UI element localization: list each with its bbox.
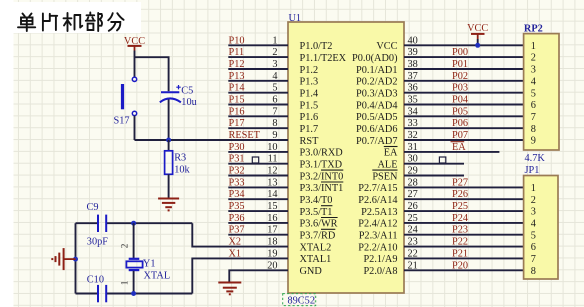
wire VCC drop (477, 39, 479, 45)
svg-text:5: 5 (531, 230, 536, 241)
pin name P0.0(AD0) (352, 53, 397, 64)
designator C10 (87, 275, 104, 286)
svg-text:13: 13 (267, 177, 277, 188)
pin number 8 (272, 118, 277, 129)
svg-text:10: 10 (267, 142, 277, 153)
svg-text:4: 4 (531, 219, 536, 230)
svg-text:6: 6 (531, 242, 536, 253)
pin number 23 (408, 237, 418, 248)
node P35 (229, 201, 245, 212)
pin name P3.4/T0 (300, 195, 333, 206)
wire pin 40 (404, 44, 524, 46)
svg-text:4.7K: 4.7K (525, 153, 546, 164)
wire pin 27 (404, 198, 524, 200)
svg-text:S17: S17 (114, 115, 130, 126)
svg-text:R3: R3 (174, 152, 186, 163)
wire pin 11 stub (228, 163, 288, 165)
node P01 (452, 59, 468, 70)
svg-text:P2.2/A10: P2.2/A10 (358, 242, 397, 253)
wire pin 14 stub (228, 198, 288, 200)
value 10u (181, 97, 196, 108)
pin number 32 (408, 130, 418, 141)
pin number 5 (RP2) (531, 88, 536, 99)
svg-text:6: 6 (531, 100, 536, 111)
value 4.7K (525, 153, 546, 164)
pin name P3.2/INT0 (300, 170, 344, 182)
pin name P1.2 (300, 65, 319, 76)
wire pin 37 (404, 80, 524, 82)
wire pin 21 (404, 269, 524, 271)
svg-text:EA: EA (452, 142, 466, 153)
pin number 1 (JP1) (531, 183, 536, 194)
svg-text:P02: P02 (452, 71, 468, 82)
pin name P2.3/A11 (359, 231, 398, 242)
svg-text:P0.0(AD0): P0.0(AD0) (352, 53, 397, 64)
svg-text:P37: P37 (229, 225, 245, 236)
svg-text:9: 9 (531, 136, 536, 147)
wire pin 2 stub (228, 56, 288, 58)
svg-text:P15: P15 (229, 95, 245, 106)
pin number 7 (RP2) (531, 112, 536, 123)
wire pin 35 (404, 104, 524, 106)
svg-text:26: 26 (408, 201, 418, 212)
svg-text:P24: P24 (452, 213, 468, 224)
svg-text:10u: 10u (181, 97, 196, 108)
svg-text:P07: P07 (452, 130, 468, 141)
pin number 18 (267, 237, 277, 248)
designator C9 (87, 202, 99, 213)
svg-text:31: 31 (408, 142, 418, 153)
svg-text:1: 1 (531, 183, 536, 194)
svg-text:2: 2 (531, 53, 536, 64)
marker square P31 (252, 157, 258, 163)
svg-text:P1.7: P1.7 (300, 124, 319, 135)
pin number 30 (408, 154, 418, 165)
part value 89C52 (283, 294, 316, 307)
svg-text:P3.6/WR: P3.6/WR (300, 219, 338, 230)
svg-text:25: 25 (408, 213, 418, 224)
node P22 (452, 237, 468, 248)
svg-text:2: 2 (272, 47, 277, 58)
op IC body U1 89C52 (288, 22, 404, 293)
node P33 (229, 177, 245, 188)
svg-text:3: 3 (531, 207, 536, 218)
node P27 (452, 177, 468, 188)
svg-text:3: 3 (272, 59, 277, 70)
svg-text:P0.7/AD7: P0.7/AD7 (356, 136, 397, 147)
value 10k (174, 164, 190, 175)
designator S17 (114, 115, 130, 126)
pin name PSEN (372, 170, 398, 182)
pin number 20 (267, 260, 277, 271)
svg-text:5: 5 (272, 83, 277, 94)
crystal Y1 (126, 259, 142, 270)
white page margin left (0, 0, 14, 307)
pin number 4 (RP2) (531, 76, 536, 87)
pin number 4 (JP1) (531, 219, 536, 230)
pin number 13 (267, 177, 277, 188)
svg-text:37: 37 (408, 71, 418, 82)
svg-text:36: 36 (408, 83, 418, 94)
svg-text:VCC: VCC (376, 41, 397, 52)
designator JP1 (525, 165, 540, 176)
svg-text:P0.4/AD4: P0.4/AD4 (356, 100, 397, 111)
svg-text:33: 33 (408, 118, 418, 129)
pin number 2 (Y1) (120, 243, 130, 248)
wire pin 23 (404, 246, 524, 248)
svg-text:P20: P20 (452, 260, 468, 271)
pin number 2 (RP2) (531, 53, 536, 64)
pin number 28 (408, 177, 418, 188)
svg-text:GND: GND (300, 266, 323, 277)
pin number 6 (RP2) (531, 100, 536, 111)
wire pin 17 stub (228, 234, 288, 236)
pin number 1 (272, 35, 277, 46)
wire pin 38 (404, 68, 524, 70)
wire pin 30 (404, 163, 464, 165)
node P26 (452, 189, 468, 200)
svg-text:P36: P36 (229, 213, 245, 224)
svg-text:P1.2: P1.2 (300, 65, 319, 76)
wire pin 16 stub (228, 222, 288, 224)
svg-text:P0.5/AD5: P0.5/AD5 (356, 112, 397, 123)
svg-text:P06: P06 (452, 118, 468, 129)
wire pin 12 stub (228, 175, 288, 177)
svg-text:39: 39 (408, 47, 418, 58)
svg-text:P3.1/TXD: P3.1/TXD (300, 160, 343, 171)
svg-text:P3.7/RD: P3.7/RD (300, 231, 336, 242)
pin name RST (300, 136, 320, 147)
svg-text:6: 6 (272, 95, 277, 106)
svg-text:P03: P03 (452, 83, 468, 94)
pin name P0.2/AD2 (356, 77, 397, 88)
svg-text:P05: P05 (452, 106, 468, 117)
resistor R3 (165, 151, 173, 175)
svg-text:P1.1/T2EX: P1.1/T2EX (300, 53, 347, 64)
wire R3 bottom (168, 174, 170, 198)
designator R3 (174, 152, 186, 163)
node P24 (452, 213, 468, 224)
pin name VCC (376, 41, 397, 52)
pin number 39 (408, 47, 418, 58)
svg-text:P2.6/A14: P2.6/A14 (358, 195, 397, 206)
svg-text:P32: P32 (229, 166, 245, 177)
svg-text:P12: P12 (229, 59, 245, 70)
pin number 24 (408, 225, 418, 236)
svg-text:VCC: VCC (467, 23, 488, 34)
wire pin 10 stub (228, 151, 288, 153)
svg-text:1: 1 (120, 280, 130, 285)
svg-text:P3.3/INT1: P3.3/INT1 (300, 183, 344, 194)
svg-text:P26: P26 (452, 189, 468, 200)
node P05 (452, 106, 468, 117)
node P37 (229, 225, 245, 236)
pin name P2.7/A15 (358, 183, 397, 194)
node P12 (229, 59, 245, 70)
pin number 7 (JP1) (531, 254, 536, 265)
node P31 (229, 154, 245, 165)
svg-text:P0.2/AD2: P0.2/AD2 (356, 77, 397, 88)
wire X1 (192, 258, 288, 293)
svg-text:XTAL2: XTAL2 (300, 242, 332, 253)
wire pin 15 stub (228, 210, 288, 212)
wire pin 31 (404, 151, 499, 153)
pin number 25 (408, 213, 418, 224)
node P00 (452, 47, 468, 58)
svg-text:24: 24 (408, 225, 418, 236)
pin number 16 (267, 213, 277, 224)
node P20 (452, 260, 468, 271)
svg-text:8: 8 (272, 118, 277, 129)
wire pin 36 (404, 92, 524, 94)
pin name P1.1/T2EX (300, 53, 347, 64)
pin name P0.3/AD3 (356, 89, 397, 100)
svg-text:P1.0/T2: P1.0/T2 (300, 41, 333, 52)
pin name P0.1/AD1 (356, 65, 397, 76)
pin number 10 (267, 142, 277, 153)
node X2 (229, 237, 242, 248)
svg-text:30pF: 30pF (87, 236, 108, 247)
svg-text:12: 12 (267, 166, 277, 177)
svg-text:P21: P21 (452, 248, 468, 259)
pin name P2.6/A14 (358, 195, 397, 206)
pin number 5 (JP1) (531, 230, 536, 241)
svg-text:P27: P27 (452, 177, 468, 188)
pin number 40 (408, 35, 418, 46)
svg-text:34: 34 (408, 106, 418, 117)
pin number 6 (JP1) (531, 242, 536, 253)
node P13 (229, 71, 245, 82)
svg-text:P10: P10 (229, 35, 245, 46)
pin number 2 (272, 47, 277, 58)
pin number 11 (268, 154, 278, 165)
svg-text:P04: P04 (452, 95, 468, 106)
node P11 (229, 47, 245, 58)
svg-text:P30: P30 (229, 142, 245, 153)
wire pin 1 stub (228, 44, 288, 46)
pin number 33 (408, 118, 418, 129)
pin number 6 (272, 95, 277, 106)
svg-text:RST: RST (300, 136, 320, 147)
pin name ALE (377, 160, 397, 171)
svg-text:5: 5 (531, 88, 536, 99)
svg-text:P01: P01 (452, 59, 468, 70)
node P36 (229, 213, 245, 224)
svg-text:35: 35 (408, 95, 418, 106)
wire pin 39 (404, 56, 524, 58)
svg-text:P11: P11 (229, 47, 245, 58)
pin name P3.6/WR (300, 218, 338, 230)
svg-text:Y1: Y1 (143, 258, 156, 269)
pin name P3.5/T1 (300, 206, 333, 218)
svg-text:8: 8 (531, 266, 536, 277)
svg-text:2: 2 (120, 243, 130, 248)
ground (left, rotated) (52, 248, 63, 270)
pin number 1 (RP2) (531, 41, 536, 52)
pin name P0.7/AD7 (356, 136, 397, 147)
svg-text:P14: P14 (229, 83, 245, 94)
wire crystal bottom rail (76, 293, 193, 295)
designator RP2 (524, 23, 543, 34)
pin number 4 (272, 71, 277, 82)
pin number 15 (267, 201, 277, 212)
resistor pack RP2 body (524, 34, 559, 150)
pin name P2.0/A8 (363, 266, 397, 277)
svg-text:8: 8 (531, 124, 536, 135)
svg-text:JP1: JP1 (525, 165, 540, 176)
svg-text:P17: P17 (229, 118, 245, 129)
wire crystal top rail (76, 222, 193, 224)
node P17 (229, 118, 245, 129)
pin name P3.1/TXD (300, 160, 343, 171)
wire S17 bottom (134, 116, 136, 140)
svg-text:23: 23 (408, 237, 418, 248)
pin name P1.3 (300, 77, 319, 88)
pin number 9 (272, 130, 277, 141)
marker square pin30 (439, 157, 445, 163)
pin name P3.3/INT1 (300, 182, 344, 194)
svg-text:C5: C5 (181, 86, 193, 97)
svg-text:P00: P00 (452, 47, 468, 58)
wire pin 25 (404, 222, 524, 224)
svg-text:P13: P13 (229, 71, 245, 82)
svg-text:89C52: 89C52 (288, 296, 315, 307)
junction Y1 top (131, 221, 136, 226)
connector JP1 body (524, 176, 558, 280)
svg-text:P2.0/A8: P2.0/A8 (363, 266, 397, 277)
pin name P0.5/AD5 (356, 112, 397, 123)
svg-text:P1.4: P1.4 (300, 89, 319, 100)
svg-text:P31: P31 (229, 154, 245, 165)
pin number 3 (272, 59, 277, 70)
pin number 26 (408, 201, 418, 212)
wire VCC to S17/C5 (135, 51, 169, 92)
svg-text:15: 15 (267, 201, 277, 212)
svg-text:P3.2/INT0: P3.2/INT0 (300, 171, 344, 182)
pin number 7 (272, 106, 277, 117)
svg-text:3: 3 (531, 65, 536, 76)
designator Y1 (143, 258, 156, 269)
svg-text:P2.5A13: P2.5A13 (361, 207, 397, 218)
svg-text:28: 28 (408, 177, 418, 188)
wire Y1 bottom (133, 271, 135, 294)
switch S17 (121, 77, 137, 116)
junction S17/C5/R3 (166, 138, 171, 143)
svg-text:P3.5/T1: P3.5/T1 (300, 207, 333, 218)
node P16 (229, 106, 245, 117)
pin number 31 (408, 142, 418, 153)
svg-text:7: 7 (531, 112, 536, 123)
node P34 (229, 189, 245, 200)
svg-text:EA: EA (384, 148, 398, 159)
wire pin 32 (404, 139, 524, 141)
pin number 19 (267, 248, 277, 259)
wire R3 top (168, 140, 170, 151)
wire pin 33 (404, 127, 524, 129)
pin name P1.6 (300, 112, 319, 123)
svg-text:14: 14 (267, 189, 277, 200)
node P10 (229, 35, 245, 46)
svg-text:U1: U1 (289, 13, 302, 24)
svg-text:7: 7 (531, 254, 536, 265)
svg-text:P0.3/AD3: P0.3/AD3 (356, 89, 397, 100)
svg-text:P1.6: P1.6 (300, 112, 319, 123)
wire pin 6 stub (228, 104, 288, 106)
ground (below R3) (158, 199, 179, 211)
node P03 (452, 83, 468, 94)
svg-text:11: 11 (268, 154, 278, 165)
wire crystal left side (75, 223, 77, 293)
node P32 (229, 166, 245, 177)
svg-text:32: 32 (408, 130, 418, 141)
svg-text:P1.5: P1.5 (300, 100, 319, 111)
svg-text:17: 17 (267, 225, 277, 236)
pin name XTAL1 (300, 254, 332, 265)
wire C5 bottom (168, 99, 170, 140)
wire pin 13 stub (228, 186, 288, 188)
ground (pin 20) (218, 283, 241, 295)
pin name GND (300, 266, 323, 277)
pin number 27 (408, 189, 418, 200)
pin number 3 (RP2) (531, 65, 536, 76)
pin name P1.4 (300, 89, 319, 100)
wire pin 3 stub (228, 68, 288, 70)
wire pin 7 stub (228, 115, 288, 117)
pin name P3.0/RXD (300, 148, 344, 159)
svg-text:PSEN: PSEN (372, 171, 398, 182)
svg-text:P2.4/A12: P2.4/A12 (358, 219, 397, 230)
power VCC (left) (124, 36, 145, 51)
wire pin 26 (404, 210, 524, 212)
pin name P3.7/RD (300, 229, 336, 241)
wire pin 5 stub (228, 92, 288, 94)
wire GND pin20 (229, 270, 288, 282)
node X1 (229, 248, 242, 259)
pin number 9 (RP2) (531, 136, 536, 147)
wire pin 28 (404, 186, 524, 188)
wire pin 34 (404, 115, 524, 117)
value XTAL (144, 270, 171, 281)
node P30 (229, 142, 245, 153)
svg-text:29: 29 (408, 166, 418, 177)
svg-text:P3.4/T0: P3.4/T0 (300, 195, 333, 206)
wire pin 4 stub (228, 80, 288, 82)
node P07 (452, 130, 468, 141)
pin number 17 (267, 225, 277, 236)
svg-text:P23: P23 (452, 225, 468, 236)
svg-text:P2.1/A9: P2.1/A9 (363, 254, 397, 265)
designator U1 (289, 13, 302, 24)
svg-text:XTAL1: XTAL1 (300, 254, 332, 265)
node P25 (452, 201, 468, 212)
svg-text:C9: C9 (87, 202, 99, 213)
node RESET (229, 130, 261, 141)
wire pin 24 (404, 234, 524, 236)
svg-text:4: 4 (531, 76, 536, 87)
wire pin 8 stub (228, 127, 288, 129)
pin number 37 (408, 71, 418, 82)
node P06 (452, 118, 468, 129)
pin number 36 (408, 83, 418, 94)
pin number 8 (RP2) (531, 124, 536, 135)
wire Y1 top (133, 223, 135, 258)
capacitor C5 (160, 85, 181, 102)
svg-text:C10: C10 (87, 275, 104, 286)
svg-text:27: 27 (408, 189, 418, 200)
pin number 29 (408, 166, 418, 177)
svg-text:P16: P16 (229, 106, 245, 117)
wire gnd stub (64, 258, 75, 260)
